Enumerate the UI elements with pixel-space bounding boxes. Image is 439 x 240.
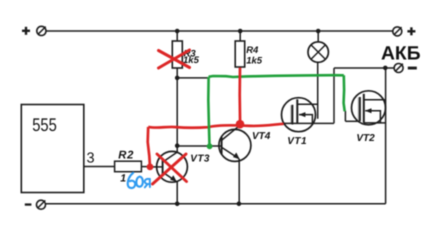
- wire right edge: [385, 68, 387, 204]
- wire R2 right lead: [141, 166, 147, 168]
- terminal plus left: [22, 26, 46, 35]
- svg-text:R2: R2: [118, 149, 134, 161]
- node green VT4 base: [207, 143, 213, 149]
- wire bottom rail: [46, 203, 386, 205]
- lamp HL1: [308, 42, 328, 62]
- red wire down to VT3 base: [148, 127, 150, 167]
- red X over R3: [159, 50, 190, 68]
- node R3 bottom: [175, 76, 180, 81]
- svg-text:1: 1: [120, 172, 126, 184]
- terminal plus right: [393, 27, 416, 36]
- resistor R3: [172, 41, 199, 68]
- wire 555 pin3 to R2: [84, 166, 115, 168]
- node R3 top: [175, 29, 180, 34]
- red wire horizontal to VT1 gate: [148, 124, 283, 128]
- svg-text:1k5: 1k5: [246, 55, 263, 66]
- wire VT1 source elbow: [333, 68, 335, 123]
- wire VT3 base: [150, 166, 163, 168]
- node bottom rail VT3: [175, 202, 180, 207]
- wire lamp top lead: [317, 31, 319, 42]
- transistor VT4: [219, 126, 271, 162]
- wire lamp to VT1 drain: [317, 62, 319, 119]
- wire VT4 base: [177, 145, 221, 147]
- node VT3 collector VT4 base: [175, 143, 180, 148]
- wire R4 top lead: [239, 31, 241, 41]
- svg-text:VT4: VT4: [252, 131, 271, 142]
- red wire R4 to VT4 collector: [238, 68, 241, 125]
- wire R3 top lead: [176, 31, 178, 41]
- mosfet VT2: [345, 91, 385, 144]
- node lamp top: [316, 29, 321, 34]
- red X over VT3: [153, 154, 187, 184]
- svg-text:R4: R4: [246, 45, 259, 56]
- svg-text:555: 555: [32, 114, 57, 135]
- resistor R4: [235, 41, 263, 67]
- resistor R2: [115, 149, 142, 171]
- node red VT3 base: [147, 164, 154, 171]
- terminal minus right: [394, 64, 417, 73]
- node bottom rail VT4: [237, 202, 242, 207]
- wire VT3 emitter to rail: [176, 182, 178, 204]
- transistor VT3: [157, 151, 210, 182]
- wire VT4 emitter to rail: [238, 159, 240, 204]
- svg-text:3: 3: [87, 151, 95, 167]
- node R4 top: [238, 29, 243, 34]
- svg-text:VT3: VT3: [190, 154, 210, 165]
- annotation 1k0 blue: [120, 172, 150, 188]
- svg-text:VT1: VT1: [287, 136, 307, 147]
- node red VT4 collector: [236, 120, 245, 129]
- node minus rail: [383, 66, 388, 71]
- svg-text:АКБ: АКБ: [381, 43, 421, 64]
- terminal minus left: [25, 200, 46, 209]
- svg-text:VT2: VT2: [356, 133, 375, 144]
- IC 555: [21, 105, 84, 193]
- mosfet VT1: [282, 98, 335, 148]
- green wire vertical to VT4 base: [208, 77, 209, 146]
- wire top positive rail: [46, 30, 393, 32]
- green wire down to VT2 gate: [344, 75, 345, 111]
- wire R3 bottom to VT3 collector: [176, 68, 178, 152]
- green wire horizontal: [209, 75, 344, 77]
- wire R3 junction to green node: [177, 77, 208, 79]
- wire minus rail: [334, 67, 394, 69]
